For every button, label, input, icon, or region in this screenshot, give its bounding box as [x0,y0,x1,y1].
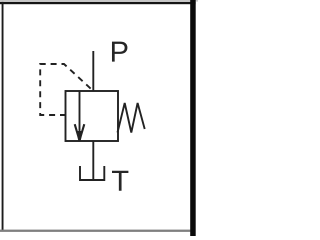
frame left black line [2,2,4,231]
arrowhead [75,124,85,141]
frame right black bar [190,0,196,236]
wire P line [92,51,94,91]
tank [80,166,104,180]
valve body box [66,91,119,141]
wire T line [92,141,94,180]
spring [118,103,145,133]
arrow flow path line [79,91,81,141]
frame bottom gray line [0,230,190,232]
pilot dashed line [40,64,93,115]
frame top gray strip [0,0,198,2]
label T [112,171,128,191]
label P [112,42,127,62]
frame top black line [0,2,196,4]
